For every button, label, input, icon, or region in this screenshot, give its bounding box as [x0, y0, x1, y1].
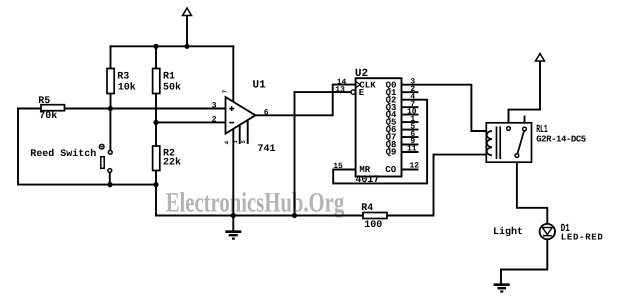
- svg-text:10k: 10k: [118, 82, 136, 94]
- svg-text:11: 11: [407, 145, 417, 154]
- svg-text:ElectronicsHub.Org: ElectronicsHub.Org: [166, 188, 345, 219]
- svg-text:2: 2: [212, 116, 217, 125]
- svg-text:Light: Light: [493, 226, 523, 238]
- svg-text:7: 7: [222, 90, 229, 94]
- svg-text:R3: R3: [117, 72, 129, 83]
- svg-text:4017: 4017: [355, 175, 379, 186]
- svg-text:Reed Switch: Reed Switch: [30, 148, 96, 160]
- svg-text:6: 6: [264, 109, 269, 118]
- svg-text:4: 4: [223, 141, 230, 145]
- svg-text:R1: R1: [163, 72, 175, 83]
- svg-text:70k: 70k: [39, 110, 57, 122]
- svg-text:Q9: Q9: [386, 148, 397, 158]
- svg-text:100: 100: [364, 220, 382, 231]
- svg-text:50k: 50k: [163, 82, 181, 94]
- svg-text:12: 12: [410, 162, 420, 171]
- svg-text:13: 13: [335, 85, 345, 94]
- svg-text:G2R-14-DC5: G2R-14-DC5: [536, 135, 586, 145]
- svg-text:CO: CO: [385, 165, 396, 175]
- svg-text:MR: MR: [359, 165, 370, 175]
- svg-text:741: 741: [258, 144, 276, 155]
- svg-text:U1: U1: [253, 80, 267, 92]
- svg-text:15: 15: [333, 162, 343, 171]
- svg-text:22k: 22k: [163, 157, 181, 169]
- svg-text:R5: R5: [38, 96, 50, 107]
- svg-text:E: E: [359, 88, 365, 98]
- svg-text:LED-RED: LED-RED: [561, 233, 604, 243]
- svg-text:3: 3: [212, 102, 217, 111]
- svg-text:U2: U2: [355, 68, 368, 80]
- svg-text:R4: R4: [361, 203, 373, 214]
